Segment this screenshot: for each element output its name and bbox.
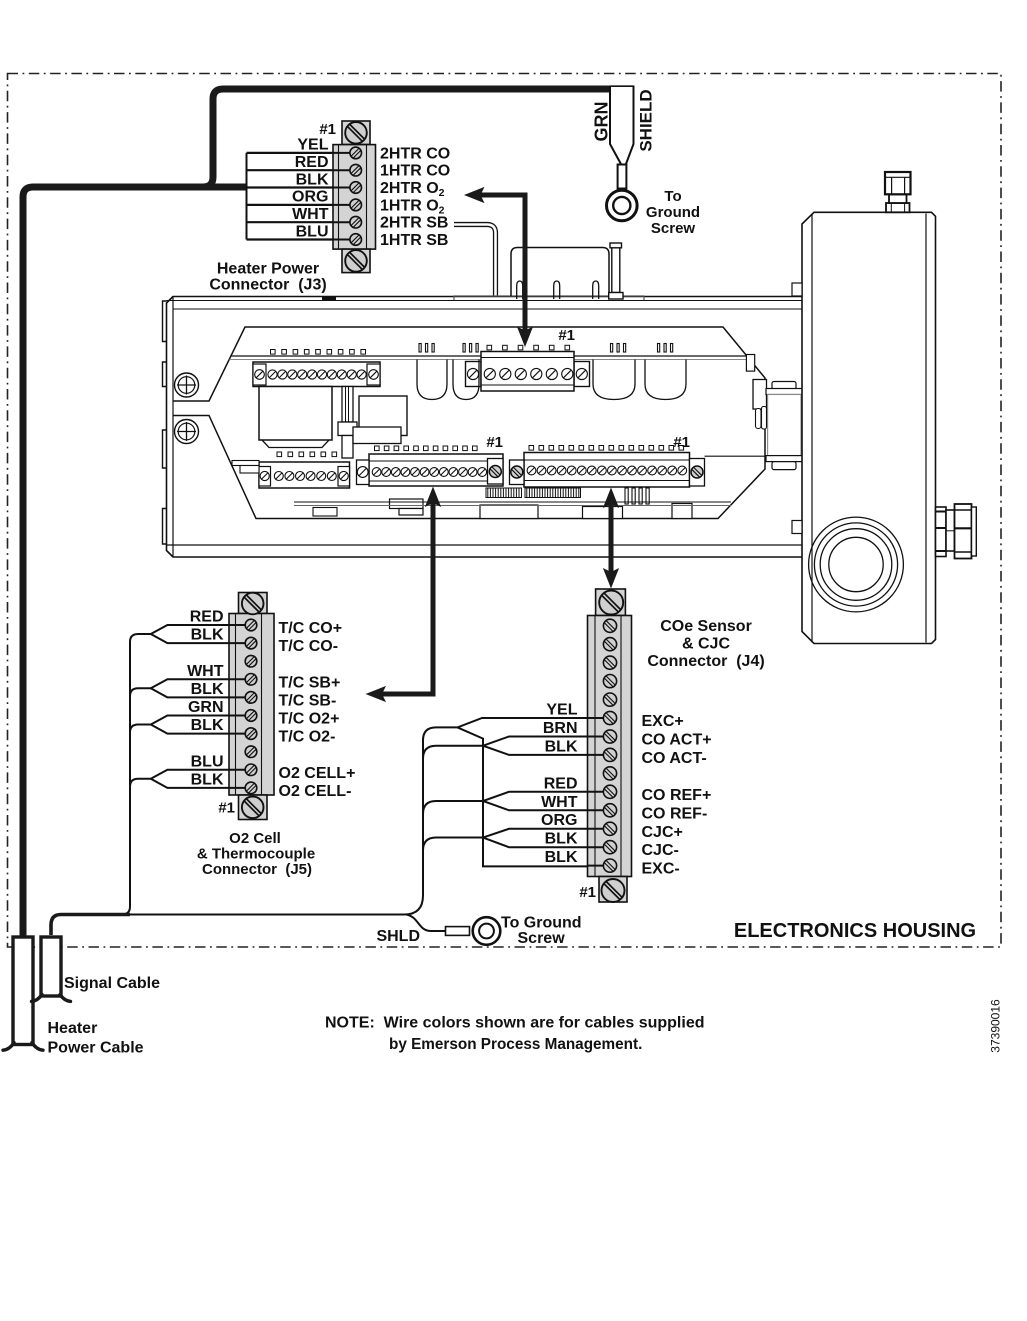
svg-text:To Ground: To Ground: [501, 915, 582, 932]
svg-text:T/C O2+: T/C O2+: [279, 711, 340, 728]
svg-text:T/C CO+: T/C CO+: [279, 620, 343, 637]
wire (hollow): 2HTR SB lead down to housing top: [454, 225, 496, 297]
svg-text:ORG: ORG: [541, 812, 577, 829]
J4 terminal screw pin 5: [603, 693, 616, 706]
wire: J4 cable bundle down to shield/ground area: [404, 738, 423, 915]
wire: J3 row BLK to terminal 3: [247, 186, 356, 188]
svg-text:CO ACT-: CO ACT-: [642, 750, 707, 767]
svg-text:RED: RED: [190, 609, 224, 626]
wire: J5 cable bundle down to signal cable: [122, 642, 130, 915]
svg-text:EXC-: EXC-: [642, 861, 680, 878]
wire: J3 row RED to terminal 2: [247, 169, 356, 171]
small rect at right end of upper board: [746, 355, 754, 372]
J4 terminal screw pin 6: [603, 711, 616, 724]
svg-text:#1: #1: [486, 434, 503, 451]
svg-text:COe Sensor: COe Sensor: [660, 618, 752, 635]
svg-text:Signal Cable: Signal Cable: [64, 975, 160, 992]
svg-text:CO ACT+: CO ACT+: [642, 732, 712, 749]
svg-text:CO REF-: CO REF-: [642, 805, 708, 822]
svg-text:EXC+: EXC+: [642, 713, 684, 730]
wire YEL to J4 pin 6: [423, 718, 606, 740]
terminal block TB-lower-left: [277, 452, 282, 457]
J3 wire fan: bracket box from cable to terminal rows: [246, 153, 248, 240]
J3 row wire stubs over body: [333, 152, 356, 154]
J4 terminal screw pin 13: [603, 841, 616, 854]
J5 terminal screw pin 3: [245, 655, 257, 667]
J3 terminal screw pin 6: [350, 234, 362, 246]
arrow: lower block A to J5 (up arrowhead + elbow left arrowhead): [381, 502, 433, 694]
J4 terminal screw pin 10: [603, 785, 616, 798]
housing top step plate under SB wire: [454, 296, 644, 300]
svg-text:2HTR O2: 2HTR O2: [380, 180, 445, 199]
relay box between boards: [353, 427, 401, 444]
J3 terminal screw pin 5: [350, 216, 362, 228]
svg-text:Screw: Screw: [651, 220, 696, 237]
svg-text:Connector (J3): Connector (J3): [209, 277, 326, 294]
housing inner opening (chamfered): [173, 327, 765, 519]
J4 terminal screw pin 7: [603, 730, 616, 743]
J3 terminal screw pin 1: [350, 147, 362, 159]
svg-text:O2 Cell: O2 Cell: [229, 830, 281, 847]
wire: heater power cable trunk (thick) from cable entry up left side to J3 label box: [23, 187, 247, 939]
cable jacket funnel splitting GRN wire and SHIELD: [610, 86, 634, 165]
svg-text:BLU: BLU: [191, 753, 224, 770]
heater power cable sleeve: [13, 937, 33, 1045]
component on housing top: relay cover (rounded box): [511, 248, 609, 297]
svg-text:T/C O2-: T/C O2-: [279, 729, 336, 746]
center standoff column: [342, 387, 353, 423]
J5 terminal screw pin 2: [245, 637, 257, 649]
svg-text:O2 CELL-: O2 CELL-: [279, 783, 352, 800]
svg-text:O2 CELL+: O2 CELL+: [279, 765, 356, 782]
svg-text:GRN: GRN: [188, 699, 224, 716]
side box mounting bosses: [792, 283, 802, 296]
svg-text:#1: #1: [319, 121, 336, 138]
svg-text:ELECTRONICS HOUSING: ELECTRONICS HOUSING: [734, 920, 976, 942]
signal cable sleeve: [41, 937, 61, 996]
J3 terminal screw pin 4: [350, 199, 362, 211]
arrow: lower block B to J4 (double headed vertical): [609, 503, 614, 573]
J5 terminal screw pin 1: [245, 619, 257, 631]
svg-text:WHT: WHT: [187, 663, 224, 680]
svg-text:Heater Power: Heater Power: [217, 261, 319, 278]
svg-text:CJC+: CJC+: [642, 824, 683, 841]
svg-text:BLK: BLK: [545, 849, 578, 866]
electronics housing outer shell: [167, 297, 807, 558]
svg-text:SHLD: SHLD: [376, 928, 420, 945]
J4 terminal screw pin 9: [603, 767, 616, 780]
svg-text:WHT: WHT: [292, 206, 329, 223]
wire: J3 row ORG to terminal 4: [247, 204, 356, 206]
wire: J3 row BLU to terminal 6: [247, 238, 356, 240]
terminal strip J3 body: [342, 121, 370, 145]
svg-text:YEL: YEL: [546, 702, 577, 719]
step plates left of lower-left block: [232, 461, 259, 466]
wire: bundle line across bottom to J4 bundle: [130, 914, 404, 916]
svg-text:WHT: WHT: [541, 794, 578, 811]
J4 terminal screw pin 3: [603, 656, 616, 669]
svg-text:#1: #1: [218, 800, 235, 817]
svg-text:T/C CO-: T/C CO-: [279, 638, 339, 655]
top fitting (gas connection) on side box: [886, 203, 910, 212]
svg-text:#1: #1: [673, 434, 690, 451]
svg-text:BLK: BLK: [191, 717, 224, 734]
svg-text:37390016: 37390016: [988, 999, 1002, 1053]
sensor port circles on side box: [809, 517, 904, 612]
svg-text:1HTR CO: 1HTR CO: [380, 163, 450, 180]
J5 bottom clamp screw: [242, 797, 264, 819]
connector bracket housing to side box: [753, 380, 767, 410]
svg-text:BLK: BLK: [545, 738, 578, 755]
svg-text:1HTR SB: 1HTR SB: [380, 232, 448, 249]
svg-text:To: To: [664, 188, 681, 205]
sensor side box (right, side view): [802, 212, 936, 643]
svg-text:#1: #1: [558, 327, 575, 344]
wire: GRN/SHIELD branch of heater cable: up at x=213 then right along top to shield funnel: [203, 89, 610, 187]
J3 top clamp screw: [345, 122, 367, 144]
housing left mounting tabs: [163, 301, 167, 342]
J5 terminal screw pin 8: [245, 746, 257, 758]
transformer under upper-left block: [259, 387, 332, 441]
arrow: J3 connector to upper header (left arrowhead + elbow): [479, 195, 525, 332]
terminal strip J5 body: [239, 593, 268, 614]
J3 terminal screw pin 2: [350, 164, 362, 176]
shield crimp ferrule: [446, 927, 470, 936]
svg-text:Screw: Screw: [518, 930, 566, 947]
right fitting (cable gland) on side box: [936, 507, 947, 557]
J5 row wire stubs over body: [229, 624, 251, 626]
PCB upper board edge: [231, 355, 747, 357]
J4 terminal screw pin 2: [603, 638, 616, 651]
svg-text:BLU: BLU: [296, 223, 329, 240]
clip capsules on bracket: [756, 409, 762, 429]
svg-text:Connector (J4): Connector (J4): [647, 653, 764, 670]
svg-text:SHIELD: SHIELD: [637, 89, 656, 151]
J4 terminal screw pin 12: [603, 822, 616, 835]
wire pair RED/WHT to J4: [483, 792, 606, 811]
svg-text:Power Cable: Power Cable: [48, 1040, 144, 1057]
svg-text:Heater: Heater: [48, 1020, 98, 1037]
svg-text:BLK: BLK: [191, 681, 224, 698]
terminal block TB-upper-center (heater power header): [487, 345, 492, 350]
wire pair ORG/BLK to J4: [483, 829, 606, 847]
ring terminal to ground screw (top): [607, 190, 638, 221]
capacitors under upper board edge: [417, 360, 447, 400]
J4 terminal screw pin 11: [603, 804, 616, 817]
J4 row wire stubs over body: [588, 717, 611, 719]
J3 terminal screw pin 3: [350, 182, 362, 194]
terminal block TB-lower-B (COe sensor / CJC header): [529, 446, 534, 451]
J4 terminal screw pin 1: [603, 619, 616, 632]
svg-text:#1: #1: [579, 884, 596, 901]
J5 terminal screw pin 9: [245, 764, 257, 776]
wire: signal cable trunk (thick part to signal cable): [51, 915, 130, 936]
J5 terminal screw pin 7: [245, 728, 257, 740]
svg-text:RED: RED: [295, 154, 329, 171]
shield crimp neck: [618, 165, 627, 189]
svg-text:2HTR SB: 2HTR SB: [380, 215, 448, 232]
svg-text:T/C SB-: T/C SB-: [279, 692, 337, 709]
terminal strip J4 body: [596, 589, 626, 616]
terminal block TB-lower-A (O2 cell / thermocouple header): [375, 446, 380, 451]
housing bottom flange lines: [167, 544, 807, 546]
svg-text:Ground: Ground: [646, 204, 700, 221]
J4 terminal screw pin 8: [603, 748, 616, 761]
wire pair BRN/BLK to J4: [483, 737, 606, 755]
svg-text:& CJC: & CJC: [682, 636, 730, 653]
wire: SHLD branch: [406, 915, 446, 932]
J4 top clamp screw: [599, 591, 623, 615]
wire pair GRN/BLK to J5: [151, 716, 250, 734]
svg-text:BLK: BLK: [296, 171, 329, 188]
svg-text:CO REF+: CO REF+: [642, 787, 712, 804]
ring terminal to ground screw (bottom): [473, 917, 501, 945]
svg-text:RED: RED: [544, 775, 578, 792]
small dark tab on housing top edge: [322, 297, 336, 300]
svg-text:BLK: BLK: [191, 627, 224, 644]
sub-bundle diagonal YEL junction to vertical: [458, 727, 607, 866]
hatched connector rows under lower blocks: [486, 488, 522, 498]
J4 bottom clamp screw: [602, 879, 625, 902]
wire pair WHT/BLK to J5: [151, 679, 250, 697]
wire: J3 row YEL to terminal 1: [247, 152, 356, 154]
svg-text:T/C SB+: T/C SB+: [279, 674, 341, 691]
relay pin bullets: [517, 281, 523, 299]
svg-text:BRN: BRN: [543, 720, 578, 737]
J4 terminal screw pin 4: [603, 675, 616, 688]
svg-text:& Thermocouple: & Thermocouple: [197, 846, 315, 863]
housing cover screw (upper phillips): [175, 373, 199, 397]
svg-text:GRN: GRN: [592, 102, 612, 142]
J5 terminal screw pin 6: [245, 710, 257, 722]
electronics housing boundary (dash-dot border): [8, 74, 1002, 948]
wire pair BLU/BLK to J5: [151, 770, 250, 788]
PCB lower edge lines: [294, 501, 731, 503]
J3 bottom clamp screw: [345, 250, 367, 272]
terminal block TB-upper-left on PCB: [271, 350, 276, 355]
component box right of transformer: [359, 396, 407, 436]
vertical bars under block B: [625, 488, 628, 504]
J5 terminal screw pin 4: [245, 674, 257, 686]
housing cover screw (lower phillips): [175, 420, 199, 444]
PCB lower support plates: [390, 499, 424, 509]
component pins on upper board: [419, 344, 421, 353]
J5 terminal screw pin 5: [245, 692, 257, 704]
svg-text:2HTR CO: 2HTR CO: [380, 145, 450, 162]
J5 terminal screw pin 10: [245, 782, 257, 794]
J5 top clamp screw: [242, 593, 264, 615]
svg-text:BLK: BLK: [545, 831, 578, 848]
standoff post on housing top: [612, 248, 620, 293]
wire: J3 row WHT to terminal 5: [247, 221, 356, 223]
svg-text:CJC-: CJC-: [642, 842, 679, 859]
svg-text:ORG: ORG: [292, 189, 328, 206]
svg-text:NOTE: Wire colors shown are f: NOTE: Wire colors shown are for cables s…: [325, 1015, 705, 1032]
svg-text:Connector (J5): Connector (J5): [202, 861, 312, 878]
wire pair RED/BLK to J5: [151, 625, 250, 643]
svg-text:by Emerson Process Management.: by Emerson Process Management.: [389, 1036, 642, 1053]
svg-text:YEL: YEL: [297, 137, 328, 154]
lower board edge segment right of block B: [705, 455, 768, 457]
J4 terminal screw pin 14: [603, 859, 616, 872]
svg-text:BLK: BLK: [191, 771, 224, 788]
